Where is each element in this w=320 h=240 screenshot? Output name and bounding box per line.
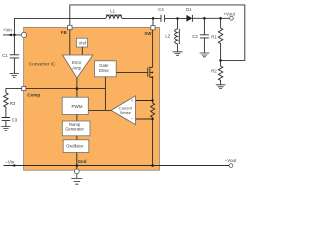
ground C3 bbox=[1, 127, 10, 131]
svg-text:Sense: Sense bbox=[120, 110, 131, 115]
ground R2 bbox=[216, 85, 226, 89]
capacitor C2 bbox=[200, 18, 209, 52]
ground C1 bbox=[10, 74, 19, 78]
wire comp bbox=[26, 88, 106, 90]
resistor R1 bbox=[218, 18, 222, 60]
wire comp RC bbox=[6, 89, 22, 93]
terminal FB bbox=[68, 25, 72, 29]
junction C2 bbox=[203, 17, 206, 20]
inductor L1 bbox=[106, 15, 122, 18]
svg-text:Converter IC: Converter IC bbox=[29, 61, 56, 66]
arrow -Vin bbox=[11, 164, 16, 167]
capacitor C3 bbox=[2, 118, 10, 127]
wire gate drive vertical bbox=[104, 77, 106, 111]
svg-text:Generator: Generator bbox=[65, 126, 84, 131]
wire pwm ramp bbox=[76, 115, 78, 122]
wire FB input bbox=[69, 30, 71, 55]
svg-text:+Vin: +Vin bbox=[3, 27, 13, 32]
svg-text:Oscillator: Oscillator bbox=[66, 143, 84, 148]
pwm box bbox=[62, 97, 88, 114]
svg-text:PWM: PWM bbox=[72, 104, 83, 109]
wire source bbox=[152, 77, 154, 165]
ground C2 bbox=[200, 53, 210, 57]
wire vref to amp bbox=[81, 47, 83, 55]
svg-text:C3: C3 bbox=[12, 118, 18, 123]
svg-text:−: − bbox=[131, 117, 134, 122]
wire pwm to sense tip bbox=[88, 109, 111, 111]
svg-text:SW: SW bbox=[144, 31, 152, 36]
svg-text:−Vin: −Vin bbox=[5, 159, 15, 164]
inductor L2 bbox=[175, 18, 180, 51]
wire error amp out bbox=[76, 78, 78, 97]
svg-text:C4: C4 bbox=[158, 7, 164, 12]
wire sense minus bbox=[136, 118, 153, 120]
op-amp error amp bbox=[63, 55, 93, 78]
junction gnd bbox=[76, 164, 79, 167]
junction C1 bbox=[13, 34, 16, 37]
wire osc gnd bbox=[76, 153, 78, 170]
terminal -Vout bbox=[229, 164, 233, 168]
svg-text:Gnd: Gnd bbox=[78, 159, 87, 164]
oscillator box bbox=[63, 140, 89, 153]
svg-text:R2: R2 bbox=[211, 69, 217, 74]
svg-text:Error: Error bbox=[72, 60, 82, 65]
terminal +Vout bbox=[230, 16, 234, 20]
gate drive box bbox=[95, 61, 117, 77]
terminal +Vin bbox=[21, 32, 26, 37]
junction L2 rail bbox=[176, 17, 179, 20]
junction comp bbox=[76, 87, 79, 90]
terminal SW bbox=[151, 26, 155, 30]
vref box bbox=[76, 38, 87, 47]
svg-text:L1: L1 bbox=[110, 9, 115, 14]
wire +Vin bbox=[3, 18, 187, 35]
ground L2 bbox=[173, 52, 183, 56]
resistor R3 bbox=[4, 93, 8, 118]
capacitor C1 bbox=[10, 35, 19, 73]
svg-text:+: + bbox=[131, 98, 134, 103]
junction sense plus bbox=[151, 99, 153, 101]
junction source rail bbox=[151, 164, 154, 167]
wire ramp osc bbox=[76, 136, 78, 140]
junction SW rail bbox=[152, 17, 155, 20]
bottom rail bbox=[4, 165, 230, 167]
capacitor C4 bbox=[161, 15, 165, 22]
svg-text:C1: C1 bbox=[2, 53, 8, 58]
junction R1 bbox=[219, 17, 222, 20]
wire output rail bbox=[192, 17, 229, 19]
svg-text:C2: C2 bbox=[192, 34, 198, 39]
svg-text:R3: R3 bbox=[10, 101, 16, 106]
svg-text:Vref: Vref bbox=[79, 41, 87, 46]
junction divider bbox=[219, 59, 222, 62]
svg-text:+Vout: +Vout bbox=[223, 11, 235, 16]
transistor Q1 bbox=[148, 67, 153, 78]
terminal Gnd bbox=[74, 169, 79, 174]
resistor R2 bbox=[218, 60, 222, 84]
diode D1 bbox=[186, 15, 192, 22]
svg-text:FB: FB bbox=[61, 30, 67, 35]
svg-text:L2: L2 bbox=[165, 34, 170, 39]
terminal Comp bbox=[22, 87, 26, 91]
svg-text:D1: D1 bbox=[186, 7, 192, 12]
svg-text:Drive: Drive bbox=[99, 68, 109, 73]
ground below gnd bbox=[71, 174, 82, 184]
wire drain bbox=[152, 30, 154, 68]
wire feedback bbox=[70, 5, 245, 61]
arrow +Vin bbox=[7, 34, 12, 37]
svg-text:Comp: Comp bbox=[27, 92, 40, 97]
resistor sense bbox=[151, 103, 155, 117]
svg-text:Amp: Amp bbox=[72, 65, 81, 70]
ramp generator box bbox=[62, 121, 90, 136]
wire SW drop bbox=[152, 18, 154, 25]
converter IC box bbox=[24, 27, 160, 170]
wire gate bbox=[116, 71, 148, 73]
junction sense minus bbox=[151, 118, 153, 120]
amp current sense bbox=[111, 96, 136, 125]
svg-text:R1: R1 bbox=[211, 35, 217, 40]
wire sense plus bbox=[136, 100, 153, 102]
svg-text:−Vout: −Vout bbox=[225, 158, 237, 163]
